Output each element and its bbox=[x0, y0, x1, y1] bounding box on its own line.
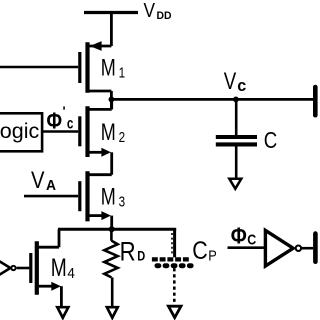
label M4 bbox=[51, 254, 75, 282]
wire M2 source to M3 drain bbox=[110, 152, 113, 174]
svg-text:c: c bbox=[237, 76, 246, 95]
node B junction dot bbox=[109, 226, 115, 232]
svg-text:': ' bbox=[63, 104, 66, 119]
svg-text:R: R bbox=[120, 237, 136, 267]
input marker triangle at left edge bbox=[0, 252, 10, 284]
wire M4 source to ground bbox=[60, 286, 63, 307]
svg-text:M: M bbox=[101, 119, 116, 146]
svg-text:Φ: Φ bbox=[47, 108, 63, 134]
svg-text:2: 2 bbox=[119, 130, 126, 146]
wire logic box to M2 gate bbox=[42, 130, 78, 133]
wire M1 source down to M2 drain bbox=[110, 99, 113, 109]
terminal bar VC bbox=[313, 87, 318, 115]
svg-text:M: M bbox=[101, 54, 116, 81]
wire VC to capacitor C bbox=[235, 99, 238, 135]
label M2 bbox=[101, 119, 125, 146]
ground under RD bbox=[107, 307, 118, 318]
svg-text:4: 4 bbox=[67, 266, 75, 282]
transistor M1 bbox=[80, 41, 112, 93]
label M1 bbox=[101, 54, 125, 81]
wire VDD to M1 drain bbox=[110, 13, 113, 47]
wire M4 drain to bottom rail bbox=[58, 229, 61, 247]
capacitor CP dashed bottom plate bbox=[157, 263, 191, 268]
svg-text:C: C bbox=[264, 127, 278, 153]
wire VA to M3 gate bbox=[24, 195, 78, 198]
svg-text:1: 1 bbox=[119, 66, 126, 82]
svg-text:P: P bbox=[208, 248, 217, 265]
svg-text:V: V bbox=[224, 68, 237, 95]
label phi'c bbox=[47, 104, 74, 134]
wire resistor RD to ground bbox=[111, 277, 114, 307]
dashed wire CP to ground bbox=[173, 268, 176, 304]
svg-text:Φ: Φ bbox=[231, 222, 247, 248]
label RD bbox=[120, 237, 146, 267]
node A junction dot bbox=[109, 97, 115, 103]
capacitor CP dashed top plate bbox=[152, 257, 189, 261]
capacitor C bbox=[216, 137, 257, 144]
label C bbox=[264, 127, 278, 153]
svg-text:M: M bbox=[101, 183, 116, 210]
svg-text:C: C bbox=[192, 237, 208, 265]
transistor M4 bbox=[31, 241, 61, 294]
label phi C bbox=[231, 222, 257, 248]
wire node B to resistor RD bbox=[110, 229, 113, 241]
resistor RD bbox=[104, 241, 117, 278]
bottom rail bbox=[58, 228, 176, 231]
wire inverter output to terminal bbox=[302, 247, 313, 250]
ground under C bbox=[229, 179, 241, 189]
svg-text:V: V bbox=[31, 167, 45, 194]
wire capacitor C to ground bbox=[235, 146, 238, 178]
logic box bbox=[0, 113, 42, 151]
wire M3 source to node B bbox=[110, 216, 113, 230]
svg-text:3: 3 bbox=[119, 195, 126, 211]
label VC bbox=[224, 68, 247, 95]
svg-text:C: C bbox=[247, 232, 256, 249]
label VDD bbox=[144, 0, 172, 22]
node VC junction dot bbox=[233, 97, 239, 103]
label VA bbox=[31, 167, 56, 194]
svg-text:DD: DD bbox=[157, 10, 172, 22]
inverter U1 bbox=[265, 230, 301, 266]
wire rail to capacitor CP bbox=[172, 229, 175, 257]
VDD rail bbox=[84, 11, 138, 14]
wire M1 gate input bbox=[0, 66, 78, 69]
wire node A to VC terminal bbox=[111, 98, 313, 101]
inverter bubble at M4 gate bbox=[11, 266, 15, 270]
transistor M2 bbox=[80, 106, 112, 157]
svg-text:A: A bbox=[46, 177, 56, 194]
transistor M3 bbox=[80, 171, 112, 221]
wire M1 source to node A bbox=[110, 91, 113, 109]
svg-text:M: M bbox=[51, 254, 67, 282]
terminal bar inverter output bbox=[313, 234, 318, 262]
wire phi C to inverter bbox=[228, 246, 265, 249]
svg-text:c: c bbox=[67, 116, 74, 133]
ground under M4 bbox=[57, 307, 68, 318]
svg-text:D: D bbox=[137, 248, 145, 264]
label M3 bbox=[101, 183, 125, 210]
ground under CP bbox=[168, 306, 181, 317]
wire bubble to M4 gate bbox=[17, 267, 30, 270]
label CP bbox=[192, 237, 217, 265]
svg-text:logic: logic bbox=[0, 119, 39, 143]
svg-text:V: V bbox=[144, 0, 156, 22]
